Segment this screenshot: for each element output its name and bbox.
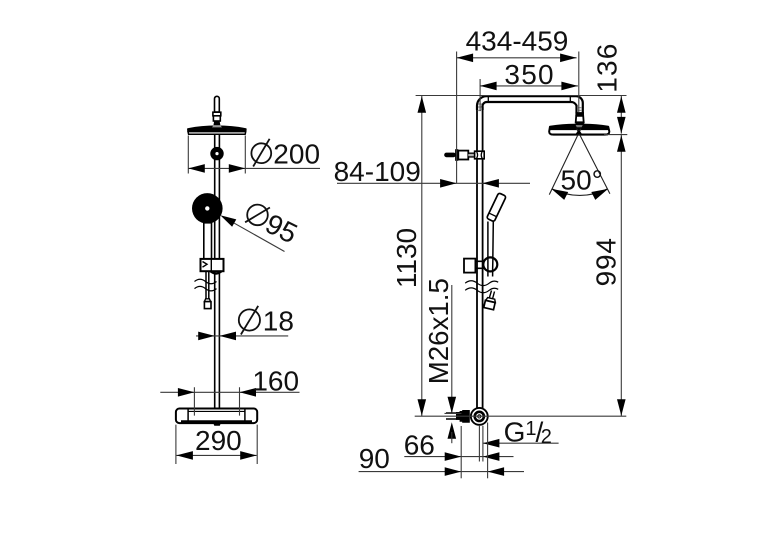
node bottom reference line: [415, 415, 627, 417]
mixer bar bottom nub: [213, 423, 221, 426]
valve handle neck: [468, 154, 474, 156]
dim 90: [359, 471, 524, 473]
stub connector ring 2: [213, 116, 220, 121]
dim M26x1.5: [451, 285, 453, 413]
head gray throat: [576, 125, 583, 127]
holder ring side: [476, 261, 484, 268]
holder ring handle pass: [488, 258, 493, 270]
arm seam left: [487, 96, 489, 102]
shower head bottom line: [551, 133, 609, 135]
head top gray patch: [212, 125, 222, 127]
spray cone lines: [549, 129, 610, 195]
svg-text:290: 290: [195, 425, 242, 456]
svg-text:84-109: 84-109: [334, 156, 421, 187]
holder bracket divider: [203, 259, 212, 271]
dim 350: [480, 85, 578, 87]
valve handle body: [458, 151, 468, 160]
dim 290: [176, 425, 257, 464]
wire ext pipe below elbow: [479, 426, 483, 462]
dim 66: [404, 456, 513, 458]
drop flare: [575, 122, 585, 125]
spray cone arc: [552, 189, 607, 196]
valve handle flange: [455, 149, 458, 161]
wire ext 350 left: [479, 79, 481, 111]
svg-text:434-459: 434-459: [466, 26, 569, 57]
mixer bar cap lines: [188, 409, 245, 423]
spray arc arrow left: [551, 189, 568, 200]
shower head front top band: [188, 126, 246, 132]
drop nut: [576, 116, 584, 122]
spray arc arrow right: [591, 189, 608, 200]
spray cone apex mark: [575, 130, 582, 135]
elbow flange: [470, 407, 489, 426]
wire ext 66-90 left: [460, 426, 462, 478]
svg-text:994: 994: [591, 237, 622, 286]
dim 136: [620, 96, 622, 134]
svg-text:18: 18: [263, 305, 294, 336]
arm pipe bend left: [477, 96, 576, 110]
hose end fitting front: [204, 299, 210, 302]
svg-text:95: 95: [261, 208, 303, 250]
hand shower handle front: [204, 223, 212, 260]
dim diameter 200: [188, 136, 245, 174]
ball joint front: [210, 147, 223, 160]
hand shower handle side: [488, 222, 493, 277]
holder bracket front: [201, 259, 224, 271]
dim diameter 18: [196, 335, 288, 337]
stub neck black: [213, 121, 220, 125]
stub connector ring 1: [213, 112, 221, 116]
top stub rod front: [215, 96, 220, 112]
svg-text:M26x1.5: M26x1.5: [423, 278, 454, 384]
svg-text:160: 160: [252, 366, 299, 397]
wire ext 434-459 left: [456, 52, 458, 184]
valve clamp on pipe: [475, 151, 485, 159]
hose below bracket front: [206, 271, 209, 299]
hose break wavy side: [465, 281, 498, 293]
hand shower disc front: [192, 193, 223, 224]
mixer bar front: [176, 409, 257, 424]
hand shower head side: [487, 193, 507, 222]
holder bracket side: [464, 259, 475, 273]
dim 1130: [421, 96, 423, 416]
wire ext 434-459 right: [578, 52, 580, 113]
valve handle rod: [444, 153, 456, 158]
svg-text:66: 66: [404, 430, 435, 461]
svg-text:136: 136: [591, 42, 622, 92]
drop seam gray: [577, 108, 582, 111]
arm pipe bend right drop: [571, 96, 583, 112]
dim 160: [194, 387, 239, 415]
wire ext 66-90 right: [487, 423, 489, 479]
node head plane line: [604, 134, 627, 136]
svg-text:50°: 50°: [561, 165, 603, 196]
svg-text:350: 350: [504, 59, 554, 90]
dim 994: [620, 135, 622, 416]
dim 434-459: [457, 57, 577, 59]
hose break wavy front: [195, 279, 217, 291]
svg-text:200: 200: [273, 139, 320, 170]
shower head side top band fill: [549, 125, 609, 130]
hose end side: [489, 291, 495, 300]
elbow wall stub: [446, 413, 460, 419]
wire riser pipe front: [215, 135, 220, 409]
svg-text:90: 90: [359, 443, 390, 474]
holder bracket lip: [211, 271, 222, 273]
elbow nut: [460, 410, 470, 423]
riser joint sleeve gray: [478, 104, 482, 111]
dim G1/2 leader: [483, 442, 559, 444]
hose end fitting side: [484, 297, 496, 310]
dim 84-109: [337, 182, 530, 184]
shower head side: [549, 125, 609, 135]
node top reference line: [416, 95, 627, 97]
drop connector ring: [575, 112, 584, 116]
mixer bar top inner line: [188, 410, 245, 412]
dim diameter 95 leader: [233, 222, 285, 251]
shower head front rim: [188, 132, 246, 135]
wire riser pipe side: [477, 110, 483, 409]
svg-text:1130: 1130: [391, 228, 422, 288]
arm seam right: [569, 96, 571, 102]
